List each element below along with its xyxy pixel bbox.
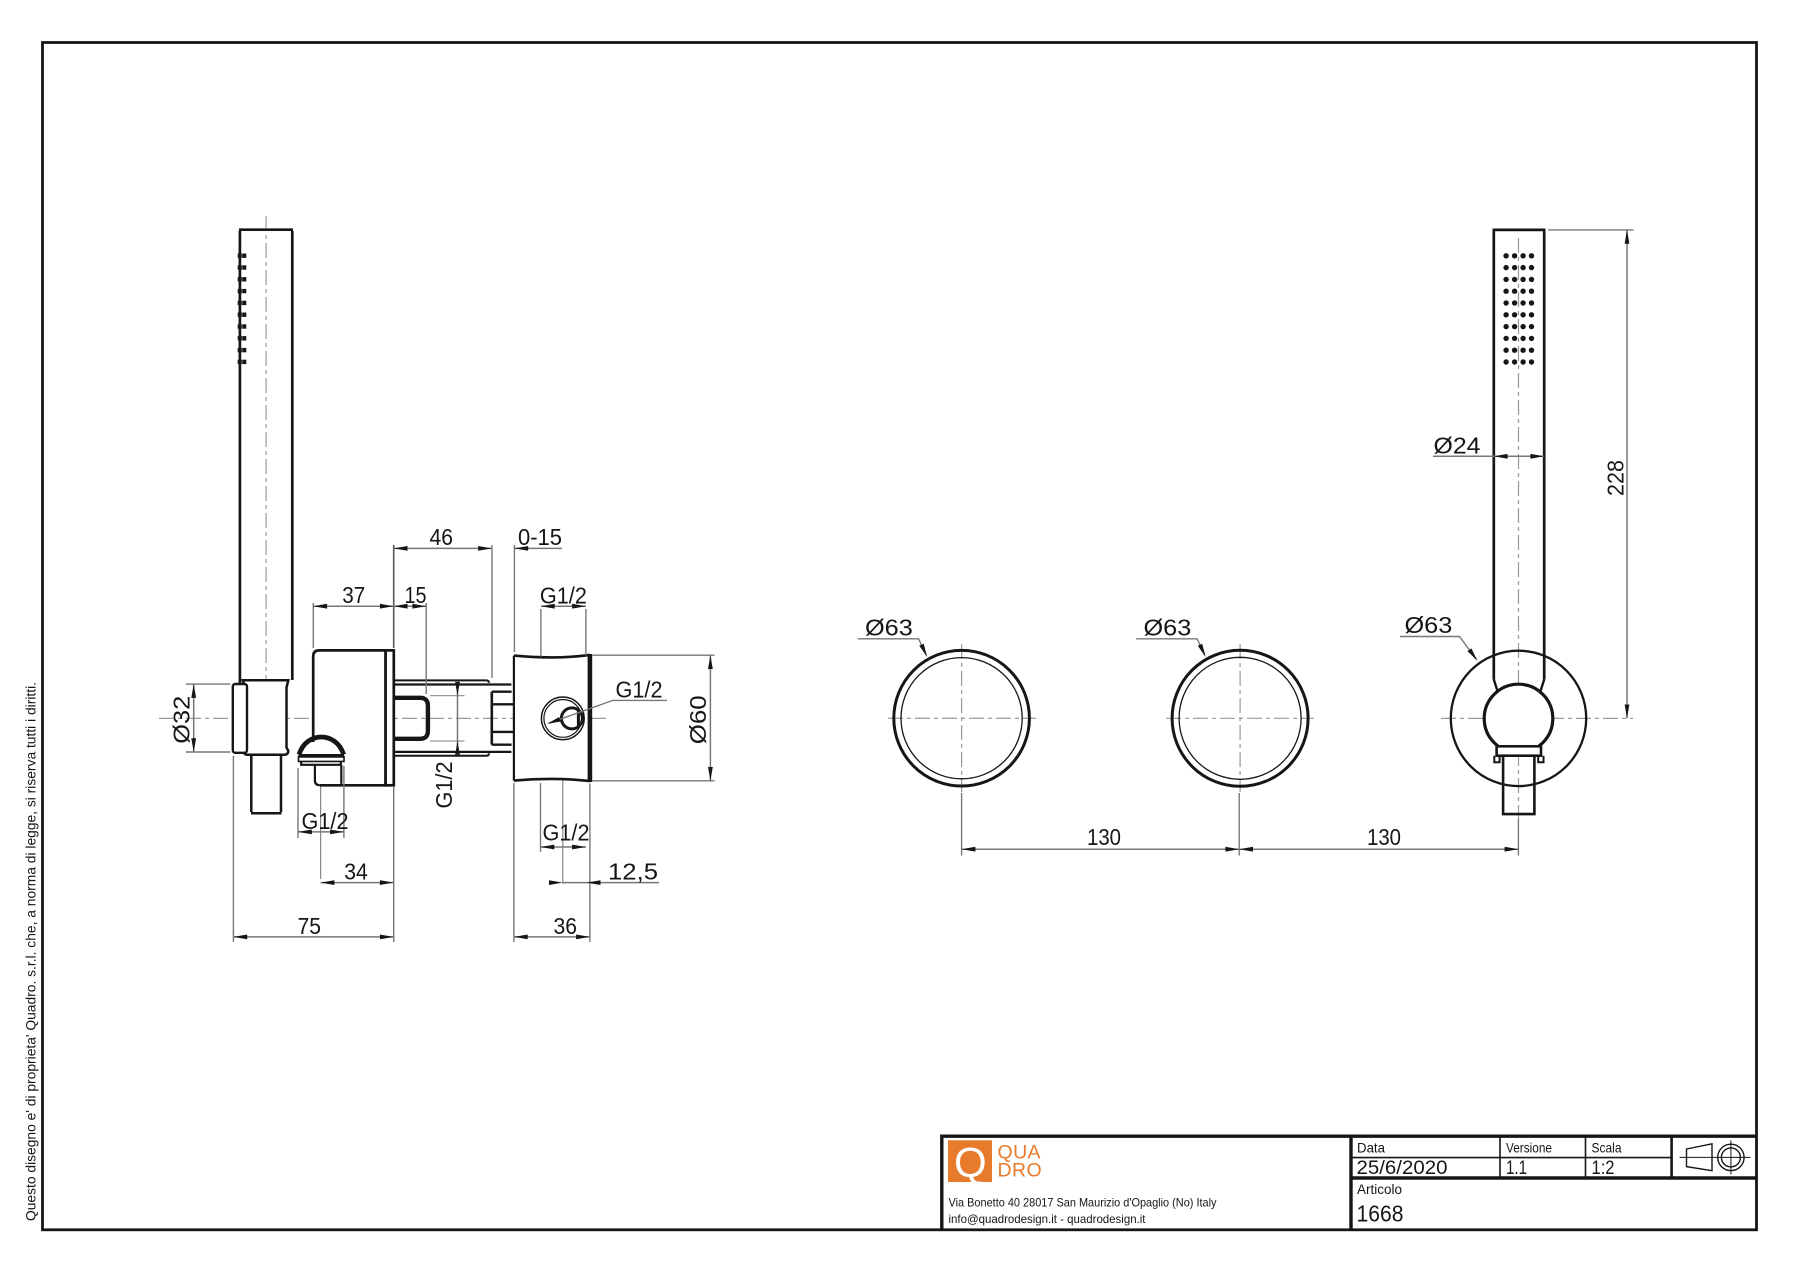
- leader d.63 holder rosette: [1400, 637, 1476, 660]
- concealed supply pipe (outer sleeve): [394, 680, 489, 755]
- sliding sleeve (thick): [394, 698, 428, 739]
- svg-text:Articolo: Articolo: [1357, 1182, 1402, 1197]
- extension line: flange right (shared 37/15/46): [393, 545, 395, 648]
- projection symbol centerline: [1680, 1156, 1751, 1158]
- holder ball joint: [1484, 684, 1553, 753]
- spout collar: [299, 754, 345, 758]
- svg-text:1668: 1668: [1357, 1201, 1404, 1227]
- dimension G1/2 box bottom: [541, 846, 586, 848]
- dimension 12,5: [563, 882, 659, 884]
- side port hole (outer rings): [541, 697, 584, 740]
- collar ears: [1494, 756, 1543, 763]
- extension line: body left: [312, 603, 314, 648]
- symbol cell divider: [1670, 1136, 1673, 1178]
- hose nipple below holder: [251, 755, 282, 814]
- extension lines: G1/2 top: [541, 609, 586, 657]
- extension lines: d.32: [186, 684, 231, 752]
- title block inner lines: [1351, 1136, 1672, 1178]
- leader G1/2 side port: [549, 700, 667, 723]
- side port tube (section): [561, 708, 582, 729]
- dimension d.32: [193, 684, 195, 752]
- svg-text:36: 36: [554, 913, 578, 939]
- extension lines: G1/2 spout: [298, 766, 344, 838]
- projection symbol circles: [1718, 1144, 1744, 1170]
- centerline: left knob horizontal: [888, 717, 1036, 719]
- svg-text:DRO: DRO: [998, 1160, 1043, 1182]
- svg-text:Q: Q: [954, 1139, 987, 1186]
- dimension 75: [233, 936, 393, 938]
- extension line: escutcheon left (75): [232, 756, 234, 942]
- svg-text:37: 37: [342, 582, 365, 608]
- centerline: middle knob vertical: [1239, 644, 1241, 792]
- extension line: sleeve right (15): [425, 603, 427, 694]
- projection symbol vertical line: [1730, 1140, 1732, 1174]
- wand spray nozzles (side): [238, 254, 247, 365]
- leader d.63 middle knob: [1136, 639, 1205, 655]
- extension line: box face left (0-15): [513, 545, 515, 652]
- svg-text:1.1: 1.1: [1506, 1158, 1527, 1179]
- svg-text:G1/2: G1/2: [616, 677, 663, 703]
- extension line: 228 top: [1548, 229, 1634, 231]
- centerline: mixer axis (horizontal): [159, 717, 610, 719]
- dimension G1/2 top: [541, 605, 586, 607]
- left control knob d.63: [894, 650, 1030, 786]
- extension lines: d.60: [592, 655, 715, 781]
- hand shower wand (front): [1493, 230, 1546, 680]
- hose collar nut: [1497, 746, 1541, 755]
- svg-text:1:2: 1:2: [1592, 1158, 1615, 1179]
- QUADRO logo square: [948, 1140, 992, 1182]
- svg-text:130: 130: [1087, 824, 1121, 850]
- centerline: spout outlet axis: [320, 742, 322, 879]
- svg-text:0-15: 0-15: [518, 524, 562, 550]
- dimension G1/2 spout: [298, 831, 344, 833]
- svg-text:46: 46: [430, 524, 454, 550]
- dimension d.60: [709, 655, 711, 781]
- extension line: middle knob center: [1238, 793, 1240, 856]
- centerline: holder rosette horizontal: [1441, 717, 1633, 719]
- projection symbol cone: [1687, 1144, 1713, 1171]
- extension lines: box (36): [514, 783, 590, 942]
- extension line: left knob center: [961, 793, 963, 856]
- svg-text:G1/2: G1/2: [431, 762, 457, 809]
- svg-text:15: 15: [405, 582, 427, 608]
- dimension 34: [321, 882, 394, 884]
- centerline: hand shower axis (front): [1518, 238, 1520, 820]
- spout arch on valve body: [299, 737, 344, 755]
- svg-text:12,5: 12,5: [608, 859, 658, 885]
- wall flange plate: [386, 650, 394, 785]
- svg-text:G1/2: G1/2: [540, 582, 587, 608]
- dimension d.24 wand: [1433, 455, 1544, 457]
- centerline: hand shower wand axis (vertical): [265, 216, 267, 695]
- svg-text:G1/2: G1/2: [302, 808, 349, 834]
- extension line: box bottom G1/2 left: [540, 783, 542, 852]
- svg-text:34: 34: [344, 859, 368, 885]
- svg-text:Scala: Scala: [1592, 1141, 1622, 1156]
- holder rosette d.63 (front): [1451, 651, 1586, 786]
- leader d.63 left knob: [858, 639, 927, 655]
- wall box body (d.60 rosette, side): [514, 655, 590, 781]
- centerline: middle knob horizontal: [1166, 717, 1314, 719]
- dimension 0-15: [514, 547, 562, 549]
- svg-text:G1/2: G1/2: [543, 820, 590, 846]
- dimension 130 (right): [1239, 848, 1518, 850]
- svg-text:Ø63: Ø63: [1405, 612, 1453, 638]
- svg-text:Data: Data: [1357, 1141, 1385, 1156]
- svg-text:Questo disegno e' di proprieta: Questo disegno e' di proprieta' Quadro. …: [24, 682, 40, 1221]
- svg-text:Ø32: Ø32: [169, 696, 195, 744]
- dimension 46: [394, 547, 492, 549]
- svg-text:228: 228: [1603, 460, 1629, 496]
- wall escutcheon disc (d.32, side): [233, 684, 247, 753]
- concealed supply pipe (thread lines): [394, 685, 512, 752]
- middle control knob d.63: [1172, 650, 1308, 786]
- dimension 15: [394, 605, 427, 607]
- extension line: flange right lower (34/75): [393, 787, 395, 942]
- extension line: holder center: [1517, 819, 1519, 856]
- mixer valve body: [313, 650, 385, 785]
- wand spray face holes: [1503, 253, 1534, 365]
- dimension 36: [514, 936, 590, 938]
- pipe end face: [490, 692, 493, 745]
- svg-text:Ø63: Ø63: [865, 615, 913, 641]
- wand holder cup: [243, 680, 289, 755]
- dimension 37: [313, 605, 393, 607]
- connection neck G1/2: [492, 704, 513, 732]
- wall box face (thick): [588, 654, 593, 782]
- hose end (front): [1502, 756, 1536, 814]
- hand shower wand (side view): [239, 230, 293, 683]
- svg-text:Ø60: Ø60: [685, 695, 711, 744]
- extension line: pipe end (46): [491, 545, 493, 678]
- spout outlet stub: [315, 765, 341, 785]
- extension lines: G1/2 sleeve: [430, 696, 465, 741]
- pipe shoulders: [492, 692, 512, 745]
- svg-text:75: 75: [298, 913, 322, 939]
- svg-text:Via Bonetto 40 28017 San Maur: Via Bonetto 40 28017 San Maurizio d'Opag…: [949, 1197, 1217, 1210]
- svg-text:Ø63: Ø63: [1144, 615, 1192, 641]
- wand taper into ball: [1494, 680, 1544, 692]
- dimension 130 (left): [962, 848, 1240, 850]
- centerline: wall box port axis: [562, 660, 564, 884]
- svg-text:Ø24: Ø24: [1434, 433, 1481, 459]
- dimension G1/2 sleeve (vertical): [457, 684, 459, 753]
- centerline: left knob vertical: [961, 644, 963, 792]
- svg-text:25/6/2020: 25/6/2020: [1357, 1158, 1448, 1179]
- title block outer lines: [942, 1136, 1757, 1229]
- svg-text:Versione: Versione: [1506, 1141, 1552, 1156]
- dimension 228: [1626, 230, 1628, 718]
- svg-text:info@quadrodesign.it - quadr: info@quadrodesign.it - quadrodesign.it: [949, 1213, 1147, 1226]
- svg-text:130: 130: [1367, 824, 1401, 850]
